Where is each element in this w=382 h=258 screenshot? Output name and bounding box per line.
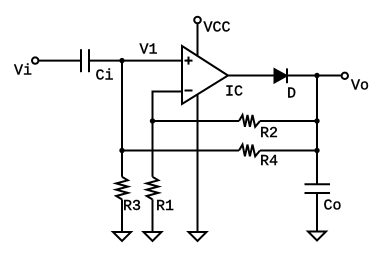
node V1 <box>119 42 157 64</box>
wire R4 right segment <box>260 150 317 152</box>
wire Ci to op-amp noninverting input <box>89 60 182 62</box>
diode D <box>275 68 297 102</box>
wire junction down to R1 <box>152 121 154 177</box>
wire R4 left segment <box>122 150 239 152</box>
junction inverting net / R2 <box>150 118 155 123</box>
capacitor Co <box>305 184 342 214</box>
svg-text:Ci: Ci <box>96 68 114 85</box>
wire node V1 down to R4 line <box>121 61 123 151</box>
junction R4 / output branch <box>314 148 319 153</box>
svg-text:V1: V1 <box>140 42 158 59</box>
wire Co to ground <box>316 193 318 232</box>
svg-text:VCC: VCC <box>204 20 231 37</box>
node output junction <box>314 73 319 78</box>
ground (under R1) <box>144 232 162 241</box>
svg-text:Co: Co <box>324 198 342 215</box>
terminal Vo <box>342 73 369 95</box>
svg-text:D: D <box>287 86 296 103</box>
wire R2 right segment <box>260 120 317 122</box>
wire R4 node to Co <box>316 151 318 185</box>
svg-text:Vo: Vo <box>351 78 369 95</box>
wire junction down to R3 <box>121 151 123 177</box>
junction R2 / output branch <box>314 118 319 123</box>
wire op-amp negative supply to ground <box>197 95 199 232</box>
ground (under R3) <box>113 232 131 241</box>
op-amp IC <box>182 46 243 104</box>
wire op-amp inverting input <box>153 92 183 122</box>
resistor R4 <box>239 145 278 170</box>
svg-text:R3: R3 <box>123 198 141 215</box>
terminal Vi <box>14 57 38 79</box>
junction V1 branch / R4 <box>119 148 124 153</box>
ground (under Co) <box>308 232 326 241</box>
wire R1 to ground <box>152 199 154 232</box>
wire output node down to R2 line <box>316 76 318 122</box>
terminal VCC <box>194 17 230 37</box>
wire diode to Vo <box>287 75 342 77</box>
resistor R2 <box>239 115 278 142</box>
wire output branch R2 to R4 <box>316 121 318 151</box>
wire R2 left segment <box>153 120 240 122</box>
svg-text:R2: R2 <box>260 125 278 142</box>
capacitor Ci <box>81 49 114 84</box>
wire VCC to op-amp positive supply <box>197 23 199 55</box>
svg-text:IC: IC <box>225 84 243 101</box>
ground (under op-amp) <box>189 232 207 241</box>
wire op-amp output to diode <box>228 75 275 77</box>
wire R3 to ground <box>121 199 123 232</box>
resistor R1 <box>147 177 174 215</box>
resistor R3 <box>116 177 141 215</box>
svg-text:Vi: Vi <box>14 63 32 80</box>
svg-text:R1: R1 <box>156 198 174 215</box>
wire Vi to Ci <box>38 60 81 62</box>
svg-text:R4: R4 <box>260 153 278 170</box>
